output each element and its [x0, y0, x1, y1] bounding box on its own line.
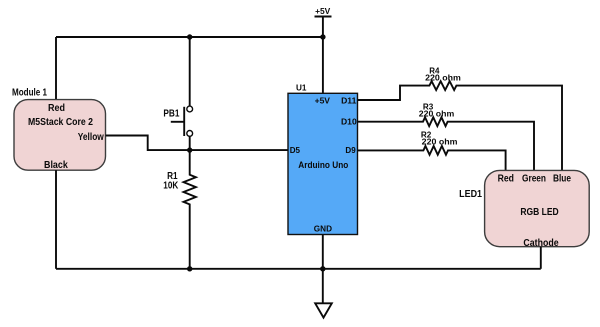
resistor R1: [163, 150, 196, 269]
node junction top-right: [320, 34, 325, 39]
node junction PB1/R1/D5: [187, 147, 192, 152]
svg-text:Red: Red: [48, 103, 65, 114]
svg-text:Arduino Uno: Arduino Uno: [298, 160, 348, 170]
svg-text:RGB LED: RGB LED: [520, 207, 558, 218]
svg-text:PB1: PB1: [163, 109, 179, 120]
node junction GND: [320, 266, 325, 271]
wire bottom horizontal: [56, 268, 541, 270]
power +5V symbol: [315, 6, 332, 17]
svg-text:Black: Black: [44, 160, 68, 171]
svg-text:Green: Green: [522, 173, 546, 184]
svg-text:D11: D11: [341, 96, 357, 106]
svg-text:220 ohm: 220 ohm: [419, 108, 455, 118]
wire left vertical to module Red: [55, 37, 57, 100]
svg-text:220 ohm: 220 ohm: [425, 73, 461, 83]
svg-text:Module 1: Module 1: [12, 88, 47, 99]
svg-text:+5V: +5V: [315, 95, 331, 105]
wire module Black down: [55, 170, 57, 269]
svg-text:10K: 10K: [163, 181, 179, 192]
wire D10 + resistor R3 to Green: [358, 102, 535, 171]
node junction R1 bottom: [187, 266, 192, 271]
wire Cathode down: [540, 247, 542, 269]
wire D9 + resistor R2 to Red: [358, 129, 506, 170]
wire PB1 top: [189, 37, 191, 106]
svg-text:U1: U1: [296, 82, 307, 92]
wire GND down: [322, 235, 324, 304]
svg-text:D10: D10: [341, 116, 357, 126]
wire PB1 bottom: [189, 136, 191, 150]
svg-text:Red: Red: [498, 173, 514, 184]
svg-text:Yellow: Yellow: [78, 132, 104, 143]
svg-text:Blue: Blue: [553, 173, 571, 184]
wire D11 + resistor R4 to Blue: [358, 66, 563, 171]
wire top horizontal: [56, 36, 323, 38]
LED1 RGB LED body: [485, 170, 590, 246]
module M5Stack body: [14, 100, 106, 171]
wire +5V to U1 top: [322, 17, 324, 94]
svg-text:D9: D9: [345, 145, 356, 155]
svg-text:+5V: +5V: [315, 6, 331, 16]
node junction top PB1: [187, 34, 192, 39]
wire Yellow to D5: [106, 136, 289, 151]
ground: [315, 303, 332, 317]
svg-text:D5: D5: [290, 145, 301, 155]
svg-text:220 ohm: 220 ohm: [422, 136, 458, 146]
svg-text:LED1: LED1: [459, 189, 482, 200]
op-amp U1 Arduino body: [288, 93, 358, 234]
svg-text:M5Stack Core 2: M5Stack Core 2: [28, 117, 93, 128]
svg-text:GND: GND: [314, 224, 332, 234]
pushbutton PB1: [163, 106, 192, 136]
